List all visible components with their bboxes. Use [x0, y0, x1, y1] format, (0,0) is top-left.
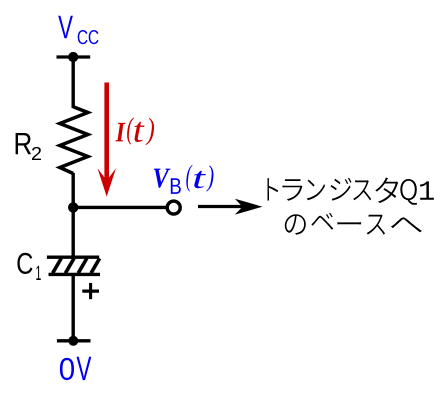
text line1 toranjisuta Q1: [267, 178, 434, 205]
0V node dot: [68, 336, 78, 346]
plus polarity mark: [82, 289, 99, 292]
label R2: [16, 133, 41, 160]
resistor R2: [60, 107, 88, 174]
junction node dot: [68, 202, 78, 212]
VCC terminal bar: [57, 55, 91, 58]
red current arrow: [104, 83, 109, 183]
label C1: [17, 253, 40, 280]
arrow to transistor text: [198, 205, 244, 208]
capacitor C1 bottom plate: [49, 273, 101, 276]
wire junction to capacitor: [71, 207, 74, 257]
label 0V: [60, 357, 91, 380]
wire capacitor to 0V: [71, 274, 74, 341]
label VB(t): [154, 165, 214, 194]
capacitor C1 hatching: [53, 258, 100, 273]
VCC node dot: [68, 52, 78, 62]
0V terminal bar: [57, 339, 91, 342]
wire VCC to resistor: [71, 57, 74, 108]
wire junction to VB terminal: [73, 206, 167, 209]
VB open terminal circle: [167, 201, 180, 214]
label VCC: [58, 16, 98, 45]
text line2 no beesu e: [285, 213, 422, 235]
label I(t): [115, 117, 154, 145]
capacitor C1 top plate: [47, 256, 99, 259]
wire resistor to junction: [71, 173, 74, 209]
